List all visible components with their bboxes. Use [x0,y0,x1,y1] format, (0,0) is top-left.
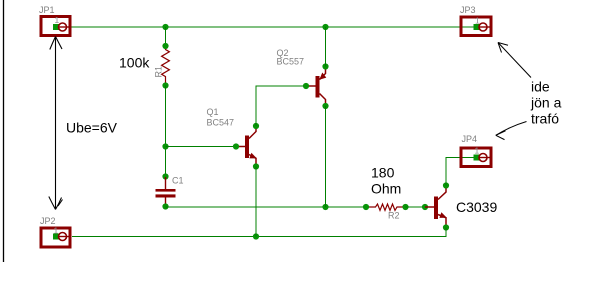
svg-text:180: 180 [371,165,395,181]
resistor R1 100k [162,43,170,89]
value label C3039 [456,199,497,215]
svg-text:Q1: Q1 [207,107,219,117]
resistor R2 180 Ohm [363,204,409,211]
svg-text:R1: R1 [154,66,164,78]
label C1 [172,176,184,186]
svg-text:C3039: C3039 [456,199,497,215]
wire Q2 collector down to net A [325,106,327,207]
label Q2 BC557 [277,48,305,66]
node junction base branch [162,143,168,149]
node junction top wire / R1 branch [162,24,168,30]
svg-text:ide: ide [531,79,550,95]
connector JP4 [461,145,491,166]
wire Q3 collector to JP4 [446,158,477,186]
wire top net to Q2 emitter [325,27,327,67]
wire R2 to Q3 base [406,206,426,208]
svg-text:JP1: JP1 [39,5,55,15]
svg-text:C1: C1 [172,176,184,186]
svg-text:1: 1 [475,145,480,155]
annotation arrow to JP4 [496,122,527,140]
svg-text:R2: R2 [388,211,400,221]
label JP3 [460,5,476,15]
wire Q1 emitter down to bottom net [255,167,257,237]
transistor Q3 C3039 (NPN) [425,182,449,230]
label JP4 [462,134,478,144]
svg-text:100k: 100k [119,55,150,71]
label JP2 [40,216,56,226]
node Q3 base pin [422,204,428,210]
node junction wire A / Q2 collector [322,204,328,210]
svg-text:jön a: jön a [530,95,562,111]
annotation label Ube=6V [66,120,118,136]
svg-text:BC547: BC547 [207,117,235,127]
label Q1 BC547 [207,107,235,127]
connector JP2 [41,226,70,248]
value label 180 Ohm [371,165,401,197]
wire Q3 emitter down to bottom net [72,228,446,237]
wire R1 to Q1 base node [165,86,167,179]
value label 100k [119,55,150,71]
label R1 (rotated) [154,66,164,78]
connector JP1 [41,15,70,36]
svg-text:Ube=6V: Ube=6V [66,120,118,136]
svg-text:trafó: trafó [531,111,559,127]
wire to Q1 base [166,146,237,148]
svg-text:1: 1 [55,15,60,25]
connector JP3 [461,16,491,36]
node junction bottom net / Q1 emitter [253,233,259,239]
annotation arrow to JP3 [498,43,531,78]
node junction top wire / Q2 emitter branch [322,24,328,30]
svg-text:1: 1 [54,226,59,236]
wire from top net down to R1 [165,27,167,46]
annotation label ide jon a trafo [530,79,562,127]
label R2 [388,211,400,221]
wire net A from C1 to R2 [166,206,367,208]
svg-text:Ohm: Ohm [371,181,401,197]
frame border line [3,0,5,262]
capacitor C1 [156,173,176,209]
wire net VCC top from JP1 to JP3 [57,26,477,28]
svg-text:1: 1 [475,16,480,26]
svg-text:JP4: JP4 [462,134,478,144]
wire Q1 collector to Q2 base [256,86,306,126]
svg-text:BC557: BC557 [277,56,305,66]
transistor Q1 BC547 (NPN) [233,123,259,170]
svg-text:JP3: JP3 [460,5,476,15]
label JP1 [39,5,55,15]
annotation double arrow Ube [49,37,63,210]
svg-text:JP2: JP2 [40,216,56,226]
transistor Q2 BC557 (PNP) [303,63,329,109]
